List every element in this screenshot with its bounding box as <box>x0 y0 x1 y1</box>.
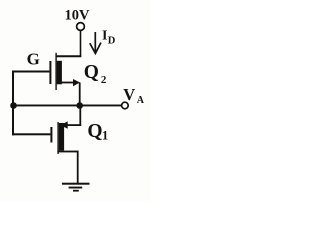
svg-text:Q: Q <box>87 121 102 142</box>
wire Q2 gate lead from G <box>12 71 49 73</box>
transistor Q2 gate plate <box>49 61 51 84</box>
junction dot centre <box>76 102 83 109</box>
ground middle bar <box>69 187 83 189</box>
wire Q2 source down to node <box>79 83 81 106</box>
ground bottom bar <box>73 190 79 192</box>
transistor Q1 source lead <box>57 151 78 153</box>
transistor Q2 channel line <box>55 53 56 90</box>
transistor Q1 gate plate <box>50 127 52 143</box>
svg-text:1: 1 <box>102 128 108 142</box>
svg-text:D: D <box>108 35 116 46</box>
wire Q1 gate lead <box>12 133 50 135</box>
svg-text:A: A <box>137 95 145 106</box>
wire left vertical G bus <box>12 71 14 136</box>
svg-text:10V: 10V <box>65 8 91 24</box>
transistor Q1 channel bar <box>59 123 64 151</box>
transistor Q1 drain lead with arrow <box>64 124 81 126</box>
wire node VA horizontal <box>12 105 122 107</box>
supply terminal circle <box>77 23 85 31</box>
transistor Q2 drain lead <box>56 55 81 57</box>
svg-text:Q: Q <box>84 62 99 83</box>
ground top bar <box>62 183 90 185</box>
wire Q1 source down to ground <box>77 151 79 184</box>
junction dot left <box>10 102 17 109</box>
svg-text:V: V <box>123 85 135 104</box>
wire supply vertical <box>80 31 82 57</box>
svg-text:2: 2 <box>101 74 107 86</box>
svg-text:I: I <box>102 29 107 44</box>
wire Q1 drain down from node <box>79 106 81 126</box>
current arrow ID <box>90 32 101 53</box>
transistor Q2 source lead with arrow <box>57 82 74 84</box>
transistor Q2 channel bar <box>57 61 62 85</box>
transistor Q1 channel line <box>57 122 58 154</box>
svg-text:G: G <box>27 49 40 68</box>
terminal circle VA <box>122 102 129 109</box>
